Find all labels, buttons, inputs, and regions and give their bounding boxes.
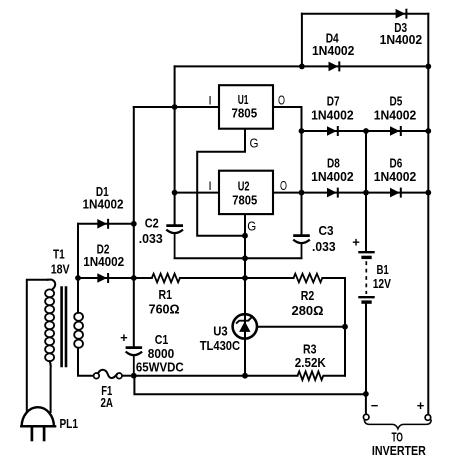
diode D3 — [396, 9, 407, 19]
wire drop to lower rail — [134, 376, 366, 395]
svg-text:2A: 2A — [100, 395, 113, 410]
diode D7 — [327, 126, 338, 136]
wire primary coil entry — [48, 280, 56, 290]
capacitor C2 — [166, 226, 183, 259]
battery B1 — [358, 252, 374, 302]
svg-text:O: O — [280, 178, 287, 193]
wire D1 D2 cathode vertical — [133, 107, 135, 346]
svg-text:7805: 7805 — [231, 106, 257, 121]
svg-text:1N4002: 1N4002 — [374, 169, 417, 184]
resistor R2 — [294, 274, 323, 283]
svg-text:O: O — [278, 92, 285, 107]
wire U2 output / D8 row — [273, 192, 428, 194]
svg-text:D5: D5 — [390, 93, 403, 108]
svg-text:R1: R1 — [158, 287, 172, 302]
wire U1 input — [134, 106, 219, 108]
diode D8 — [327, 188, 338, 198]
wire U1 output — [273, 107, 302, 234]
svg-text:D7: D7 — [327, 93, 340, 108]
svg-text:C1: C1 — [155, 332, 169, 347]
svg-text:1N4002: 1N4002 — [311, 169, 354, 184]
wire input rail vertical — [174, 66, 176, 224]
svg-text:12V: 12V — [373, 276, 391, 291]
svg-text:C3: C3 — [319, 223, 334, 238]
wire minus terminal lead — [365, 394, 367, 414]
svg-text:B1: B1 — [376, 262, 388, 277]
wire B1 top lead — [365, 131, 367, 251]
wire U2 input — [175, 192, 219, 194]
terminal circles — [363, 414, 369, 420]
svg-text:65WVDC: 65WVDC — [136, 360, 184, 375]
svg-text:1N4002: 1N4002 — [380, 32, 423, 47]
svg-text:T1: T1 — [53, 247, 65, 262]
wire primary bottom lead — [50, 361, 51, 412]
svg-text:TL430C: TL430C — [200, 338, 241, 353]
diode D5 — [390, 126, 401, 136]
svg-text:−: − — [371, 398, 379, 413]
capacitor C1 — [126, 348, 143, 376]
wire B1 bottom lead — [365, 303, 367, 394]
svg-text:R2: R2 — [301, 288, 315, 303]
shunt regulator U3 — [233, 314, 257, 338]
svg-text:.033: .033 — [312, 239, 336, 254]
wire U3 right lead — [257, 326, 345, 328]
diode D4 — [329, 61, 340, 71]
wire ground rail horizontal — [175, 257, 302, 259]
wire bottom rail — [134, 375, 298, 377]
diode D2 — [97, 273, 108, 283]
svg-text:U3: U3 — [213, 323, 227, 338]
svg-text:PL1: PL1 — [59, 416, 78, 431]
regulator U1 box — [219, 85, 273, 129]
wire D2 R1 R2 row — [78, 277, 152, 279]
wire D1 row — [78, 223, 134, 225]
transformer T1 secondary coil — [74, 313, 83, 348]
svg-text:1N4002: 1N4002 — [83, 254, 124, 269]
svg-text:1N4002: 1N4002 — [83, 196, 124, 211]
svg-text:I: I — [208, 179, 211, 193]
svg-text:1N4002: 1N4002 — [374, 107, 417, 122]
wire secondary to D1 D2 vertical — [77, 224, 79, 313]
svg-text:1N4002: 1N4002 — [311, 107, 354, 122]
wire top D3 row — [302, 13, 428, 15]
wire U1 ground pin routing — [197, 129, 245, 236]
plug PL1 — [22, 407, 54, 426]
svg-text:+: + — [120, 330, 128, 345]
capacitor C3 — [293, 236, 310, 259]
wire R2 R3 right vertical — [344, 278, 346, 376]
svg-text:+: + — [417, 398, 425, 413]
svg-text:G: G — [250, 136, 259, 151]
resistor R1 — [152, 274, 180, 283]
svg-text:1N4002: 1N4002 — [312, 43, 355, 58]
svg-text:760Ω: 760Ω — [149, 302, 180, 317]
svg-text:.033: .033 — [139, 231, 163, 246]
svg-text:280Ω: 280Ω — [292, 303, 324, 318]
svg-text:INVERTER: INVERTER — [372, 443, 426, 458]
wire right rail — [427, 14, 429, 415]
svg-text:+: + — [352, 235, 360, 250]
svg-text:U2: U2 — [238, 178, 250, 193]
wire primary left lead — [27, 280, 48, 412]
brace — [364, 420, 431, 429]
diode D1 — [97, 219, 108, 229]
svg-text:7805: 7805 — [232, 192, 257, 207]
wire vertical D3 branch left — [301, 14, 303, 67]
diode D6 — [390, 188, 401, 198]
svg-text:G: G — [247, 219, 256, 234]
regulator U2 box — [219, 171, 273, 214]
svg-text:I: I — [208, 93, 211, 107]
svg-text:2.52K: 2.52K — [295, 355, 327, 370]
wire D7 row — [302, 130, 429, 132]
svg-text:18V: 18V — [51, 261, 70, 276]
transformer T1 primary coil — [45, 289, 54, 361]
svg-text:C2: C2 — [145, 216, 159, 231]
wire D4 row — [175, 65, 429, 67]
fuse F1 — [94, 373, 122, 379]
wire secondary bottom lead — [78, 348, 94, 376]
transformer T1 core — [62, 286, 66, 367]
wire ground rail vertical — [244, 214, 246, 376]
resistor R3 — [298, 371, 324, 380]
wire fuse to C1 junction — [122, 375, 134, 377]
